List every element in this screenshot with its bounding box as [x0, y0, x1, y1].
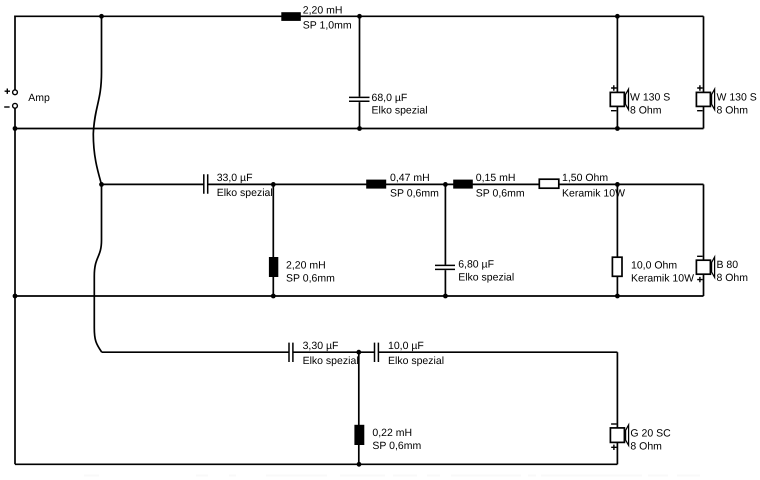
svg-text:68,0 µF: 68,0 µF [372, 92, 408, 104]
svg-text:B 80: B 80 [717, 259, 739, 271]
svg-text:Elko spezial: Elko spezial [458, 271, 514, 283]
svg-text:Elko spezial: Elko spezial [388, 355, 444, 367]
svg-text:Keramik 10W: Keramik 10W [562, 188, 625, 200]
svg-text:10,0 µF: 10,0 µF [388, 340, 424, 352]
svg-text:1,50 Ohm: 1,50 Ohm [562, 172, 608, 184]
svg-text:SP 0,6mm: SP 0,6mm [286, 272, 335, 284]
svg-text:Elko spezial: Elko spezial [303, 355, 359, 367]
svg-text:SP 0,6mm: SP 0,6mm [372, 440, 421, 452]
svg-text:3,30 µF: 3,30 µF [303, 340, 339, 352]
svg-text:Elko spezial: Elko spezial [217, 187, 273, 199]
svg-text:W 130 S: W 130 S [717, 92, 757, 104]
svg-text:8 Ohm: 8 Ohm [630, 440, 662, 452]
svg-text:8 Ohm: 8 Ohm [717, 104, 749, 116]
svg-text:SP 0,6mm: SP 0,6mm [476, 188, 525, 200]
svg-text:Keramik 10W: Keramik 10W [631, 272, 694, 284]
svg-text:0,22 mH: 0,22 mH [372, 427, 412, 439]
svg-text:6,80 µF: 6,80 µF [458, 258, 494, 270]
svg-text:8 Ohm: 8 Ohm [630, 104, 662, 116]
svg-text:G 20 SC: G 20 SC [630, 427, 671, 439]
svg-text:8 Ohm: 8 Ohm [717, 272, 749, 284]
svg-text:SP 1,0mm: SP 1,0mm [303, 19, 352, 31]
svg-text:SP 0,6mm: SP 0,6mm [390, 188, 439, 200]
svg-text:Elko spezial: Elko spezial [372, 105, 428, 117]
svg-text:2,20 mH: 2,20 mH [286, 259, 326, 271]
svg-text:33,0 µF: 33,0 µF [217, 172, 253, 184]
svg-text:Amp: Amp [28, 92, 50, 104]
svg-text:W 130 S: W 130 S [630, 92, 670, 104]
svg-text:0,15 mH: 0,15 mH [476, 172, 516, 184]
svg-text:2,20 mH: 2,20 mH [303, 4, 343, 16]
svg-text:0,47 mH: 0,47 mH [390, 172, 430, 184]
svg-text:10,0 Ohm: 10,0 Ohm [631, 259, 677, 271]
